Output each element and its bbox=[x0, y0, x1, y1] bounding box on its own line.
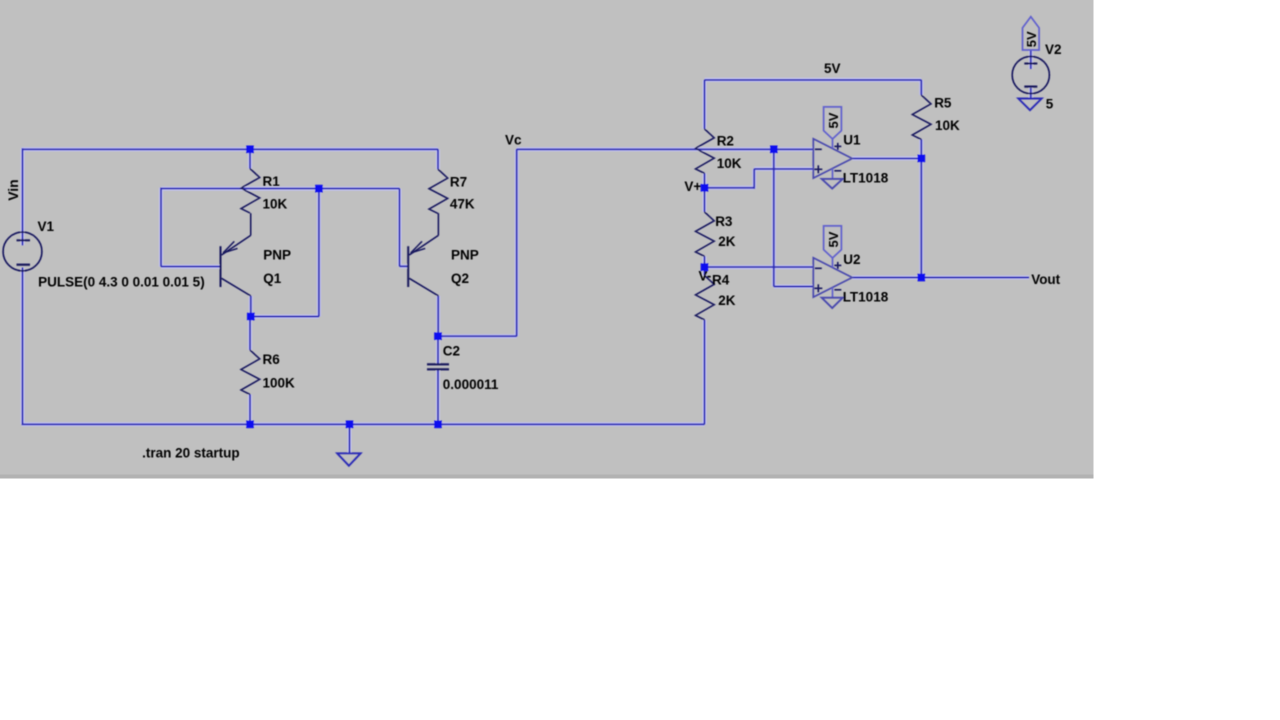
svg-text:U1: U1 bbox=[843, 132, 861, 147]
svg-text:47K: 47K bbox=[450, 197, 475, 212]
svg-text:R4: R4 bbox=[712, 272, 730, 287]
svg-text:2K: 2K bbox=[718, 234, 736, 249]
svg-text:V2: V2 bbox=[1045, 42, 1062, 57]
svg-text:Vout: Vout bbox=[1031, 272, 1060, 287]
svg-text:R2: R2 bbox=[717, 134, 734, 149]
svg-text:10K: 10K bbox=[263, 197, 288, 212]
svg-text:C2: C2 bbox=[443, 344, 460, 359]
svg-text:R1: R1 bbox=[263, 174, 281, 189]
svg-text:Q2: Q2 bbox=[451, 271, 469, 286]
svg-text:5V: 5V bbox=[824, 61, 841, 76]
svg-text:.tran 20 startup: .tran 20 startup bbox=[142, 446, 240, 461]
svg-text:R5: R5 bbox=[934, 96, 952, 111]
svg-text:Q1: Q1 bbox=[263, 271, 282, 286]
svg-text:5V: 5V bbox=[826, 112, 841, 128]
svg-text:Vin: Vin bbox=[5, 179, 21, 201]
svg-text:R7: R7 bbox=[450, 175, 467, 190]
svg-text:100K: 100K bbox=[263, 376, 296, 391]
svg-text:V-: V- bbox=[699, 269, 712, 284]
svg-text:10K: 10K bbox=[935, 118, 960, 133]
svg-text:PULSE(0 4.3 0 0.01 0.01 5): PULSE(0 4.3 0 0.01 0.01 5) bbox=[38, 274, 205, 289]
svg-text:PNP: PNP bbox=[451, 247, 479, 262]
svg-text:V+: V+ bbox=[684, 179, 701, 194]
svg-text:V1: V1 bbox=[38, 219, 55, 234]
svg-text:R6: R6 bbox=[263, 352, 281, 367]
svg-text:Vc: Vc bbox=[505, 133, 522, 148]
svg-text:2K: 2K bbox=[718, 293, 736, 308]
svg-text:10K: 10K bbox=[717, 156, 742, 171]
svg-text:U2: U2 bbox=[843, 252, 860, 267]
svg-text:R3: R3 bbox=[715, 214, 733, 229]
svg-text:LT1018: LT1018 bbox=[843, 171, 889, 186]
svg-text:5: 5 bbox=[1046, 96, 1054, 111]
svg-text:PNP: PNP bbox=[263, 247, 291, 262]
svg-text:5V: 5V bbox=[1024, 31, 1039, 47]
svg-text:0.000011: 0.000011 bbox=[443, 377, 499, 392]
svg-text:LT1018: LT1018 bbox=[843, 290, 889, 305]
svg-text:5V: 5V bbox=[826, 231, 841, 247]
